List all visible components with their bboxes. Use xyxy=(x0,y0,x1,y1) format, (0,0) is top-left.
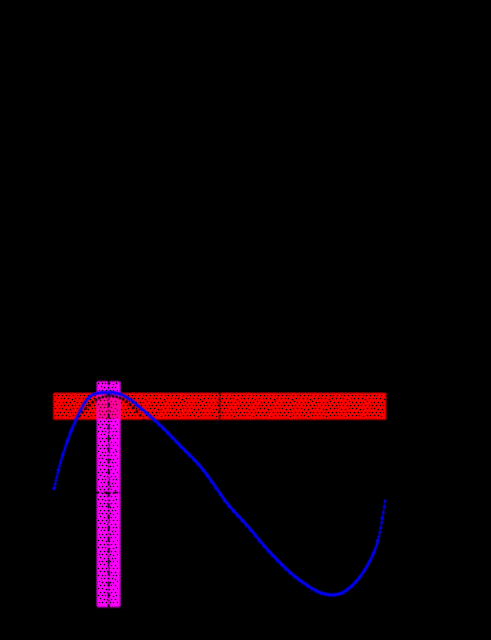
magenta vertical band xyxy=(97,381,121,607)
red horizontal band xyxy=(54,393,387,420)
magenta band ragged edges xyxy=(97,381,121,607)
magenta band hatch dots xyxy=(99,384,118,603)
blue curve connecting line xyxy=(54,392,385,595)
red-over-magenta mix at band intersection xyxy=(97,394,119,420)
black dash-dot vertical line at zero crossing x xyxy=(219,391,221,421)
black dash-dot vertical line at peak x xyxy=(108,380,110,608)
black dotted parabola (quadratic approximation of peak) xyxy=(61,394,159,446)
black dashed horizontal line at y=0 level xyxy=(95,492,122,494)
blue dotted curve xyxy=(52,391,386,597)
red band ragged edges xyxy=(54,393,387,420)
red band hatch dots xyxy=(56,396,385,417)
